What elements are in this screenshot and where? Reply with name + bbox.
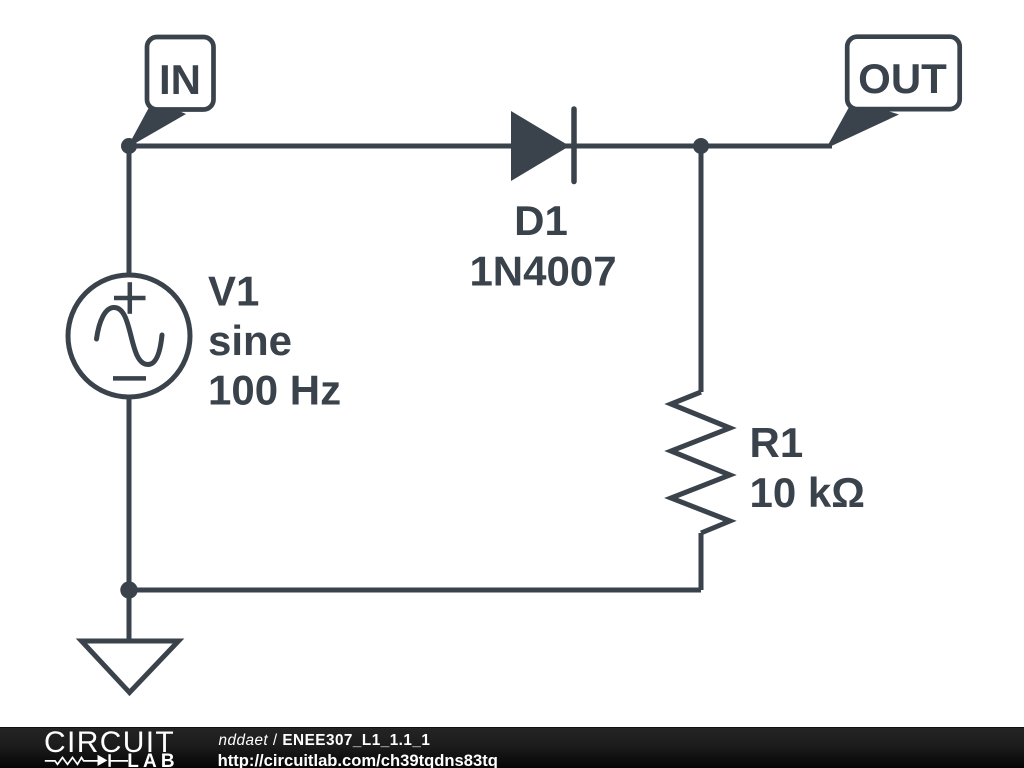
svg-text:OUT: OUT [858,55,947,102]
V1 plus sign [114,296,146,301]
flag OUT tail [826,100,899,149]
wire: bottom rail [129,588,701,593]
node ground junction dot [120,581,137,598]
svg-text:V1: V1 [208,268,259,315]
svg-text:IN: IN [159,56,201,103]
diode D1 cathode bar [571,109,577,182]
voltage source V1 circle [68,275,190,397]
footer bar [0,727,1024,768]
flag IN box [147,37,214,110]
footer title line [219,733,431,748]
V1 minus sign [113,376,146,381]
svg-text:R1: R1 [750,419,804,466]
svg-text:LAB: LAB [127,753,178,768]
V1 sine wave [97,308,163,365]
resistor R1 zigzag [671,392,730,533]
wire: V1 bottom to ground junction [127,395,132,590]
svg-text:1N4007: 1N4007 [469,248,616,295]
svg-text:10 kΩ: 10 kΩ [750,469,865,516]
logo resistor squiggle [45,757,98,764]
flag OUT box [847,37,960,109]
footer url line [218,753,498,768]
wire: right rail (junction to resistor top) [699,146,704,392]
ground wire stub [127,590,132,640]
ground symbol triangle [82,641,179,693]
wire: resistor bottom to bottom rail corner [699,533,704,590]
CircuitLab logo resistor+diode glyph and LAB [43,753,178,768]
flag IN tail [127,100,186,148]
svg-text:D1: D1 [514,197,568,244]
wire: top rail from IN node to OUT flag tail [129,144,832,149]
wire: left rail from IN node down to V1 top [127,146,132,280]
node IN junction dot [121,138,137,154]
node OUT junction dot [693,138,709,154]
CircuitLab logo wordmark CIRCUIT [44,728,175,758]
logo diode [98,755,108,766]
diode D1 triangle (anode) [511,111,570,181]
svg-text:100 Hz: 100 Hz [208,367,341,414]
svg-text:sine: sine [208,317,292,364]
